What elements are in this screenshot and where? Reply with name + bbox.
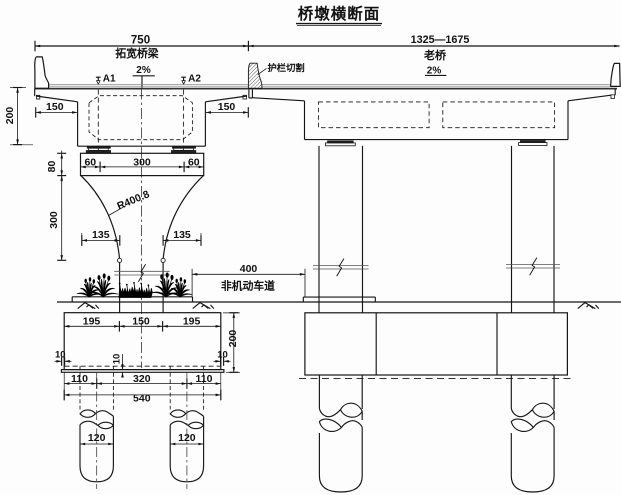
pier cap new bridge [81, 153, 204, 175]
new pier centerline dash-dot [140, 89, 142, 369]
ground line [57, 301, 621, 303]
svg-text:老桥: 老桥 [423, 48, 447, 62]
new girder bottom [78, 145, 206, 147]
svg-text:80: 80 [46, 161, 58, 173]
stem break lines [114, 270, 169, 272]
new girder left wing soffit [36, 96, 78, 102]
old girder left wing soffit [252, 98, 304, 101]
svg-text:150: 150 [132, 316, 150, 328]
svg-text:750: 750 [131, 35, 150, 47]
platform new bridge [72, 296, 192, 298]
old girder void left dashed [319, 102, 430, 128]
old pile at x=532.7 lower edges [510, 433, 512, 476]
pile at x=96.7 rounded bottom [80, 466, 113, 482]
old cushion dashed line [299, 377, 572, 379]
dowel circle left [118, 258, 122, 262]
deck surface line 1 [49, 83, 249, 85]
label R400.8 with leader [109, 206, 126, 216]
plant dense grass middle [119, 287, 152, 297]
dimension 195 150 195 [64, 325, 221, 327]
old pile at x=340.8 break wave 1 [319, 409, 340, 417]
dimension 540 [64, 394, 221, 396]
old column left edges [318, 146, 320, 313]
svg-text:195: 195 [83, 316, 101, 328]
old pile at x=340.8 rounded bottom [319, 476, 362, 492]
new girder right drip square [243, 95, 247, 99]
old bearing right [520, 141, 545, 143]
old bearing left [328, 141, 354, 143]
stem break zigzag [138, 264, 145, 282]
old pile at x=532.7 break wave 2 [511, 419, 533, 431]
svg-text:200: 200 [4, 107, 16, 125]
embedded pile right dashed [169, 366, 171, 409]
old column left break [313, 264, 369, 266]
platform old bridge [303, 296, 375, 298]
pile at x=96.7 break wave 1 [80, 410, 96, 417]
dimension 150 left wing [36, 111, 78, 113]
dimension 110 320 110 [64, 383, 221, 385]
old cap divider left [375, 313, 377, 375]
dimension 135 right [163, 239, 201, 241]
old pile at x=532.7 rounded bottom [511, 476, 554, 492]
section marker A1 [96, 76, 101, 78]
new girder right web [204, 102, 206, 146]
svg-text:10: 10 [55, 349, 66, 360]
old cap divider right [496, 313, 498, 375]
title underline [296, 23, 382, 25]
new girder left drip square [36, 95, 39, 99]
old pile at x=340.8 upper edges [318, 375, 320, 409]
new girder left web [77, 102, 79, 146]
plant reeds right clump [151, 292, 166, 297]
pier stem left edge [119, 260, 121, 313]
dimension 60 300 60 [81, 166, 204, 168]
pile at x=96.7 centerline [96, 373, 98, 489]
svg-text:非机动车道: 非机动车道 [221, 278, 275, 292]
deck cut stub below cut barrier [248, 90, 250, 98]
pile at x=186.9 rounded bottom [170, 466, 203, 482]
svg-text:110: 110 [71, 373, 88, 385]
svg-text:桥墩横断面: 桥墩横断面 [298, 4, 381, 23]
svg-text:A1: A1 [103, 74, 116, 85]
old girder bottom [305, 139, 569, 141]
old girder right web [567, 101, 569, 140]
old pile at x=532.7 upper edges [510, 375, 512, 409]
pier taper curve left R400.8 [81, 176, 120, 260]
dimension 150 right wing [206, 111, 249, 113]
svg-text:195: 195 [183, 316, 201, 328]
dimension 135 left [82, 239, 120, 241]
svg-text:300: 300 [48, 211, 60, 229]
dimension 200 deck height [17, 88, 19, 145]
pile at x=186.9 break wave 1 [170, 410, 186, 417]
pile at x=186.9 break wave 2 [188, 422, 203, 429]
old girder right fascia [614, 89, 616, 96]
pier stem right edge [162, 260, 164, 313]
dimension 80 cap height [61, 151, 63, 182]
new girder left fascia [34, 89, 36, 97]
dimension 200 cap height right [233, 313, 235, 373]
svg-text:A2: A2 [188, 74, 201, 85]
pile at x=96.7 edges [79, 425, 81, 466]
section marker A2 [181, 76, 186, 78]
left bearing new bridge [87, 146, 110, 148]
deck top thick line [35, 88, 617, 90]
cushion layer below cap [61, 370, 224, 373]
old pile at x=340.8 lower edges [318, 433, 320, 476]
svg-text:2%: 2% [136, 65, 151, 76]
svg-text:1325—1675: 1325—1675 [411, 34, 470, 46]
dimension 1325-1675 [248, 45, 619, 47]
soil hatch symbol left [78, 303, 85, 309]
section cut line A2 dashed [183, 90, 185, 154]
pile at x=96.7 break wave 2 [98, 422, 113, 429]
svg-text:110: 110 [196, 373, 213, 385]
pile at x=186.9 centerline [186, 373, 188, 489]
pier taper curve right [163, 176, 203, 260]
old column right break [506, 263, 560, 265]
left barrier F-shape [35, 57, 49, 89]
section cut line A1 dashed [97, 90, 99, 154]
dimension 10 cushion thickness rotated [122, 354, 124, 370]
svg-text:400: 400 [240, 263, 258, 275]
pile at x=186.9 dimension 120 [170, 443, 203, 445]
label 护栏切割 with leader [258, 68, 267, 74]
old column right edges [511, 146, 513, 313]
right barrier (old bridge edge) [611, 63, 621, 86]
svg-text:10: 10 [112, 354, 123, 365]
dimension 400 [192, 273, 305, 275]
foundation cap new bridge [64, 313, 221, 370]
svg-text:60: 60 [84, 156, 96, 168]
svg-text:135: 135 [173, 229, 191, 241]
svg-text:150: 150 [218, 101, 236, 113]
old girder right wing soffit [568, 95, 611, 101]
svg-text:540: 540 [133, 393, 151, 405]
old girder right drip square [611, 95, 614, 99]
old girder void right dashed [443, 102, 555, 128]
extension lines below cap [63, 372, 65, 400]
right bearing new bridge [172, 146, 195, 148]
pile at x=186.9 edges [169, 425, 171, 466]
old pile at x=340.8 break wave 2 [319, 419, 341, 431]
construction joint dashed in cap [65, 365, 221, 367]
svg-text:135: 135 [92, 229, 110, 241]
svg-text:320: 320 [133, 373, 151, 385]
svg-text:150: 150 [46, 101, 64, 113]
new girder inner void dashed octagon [89, 96, 192, 140]
old pile at x=532.7 break wave 1 [511, 409, 532, 417]
soil hatch symbol middle [193, 303, 200, 309]
svg-text:200: 200 [227, 330, 239, 348]
svg-text:拓宽桥梁: 拓宽桥梁 [115, 46, 158, 60]
svg-text:护栏切割: 护栏切割 [268, 62, 305, 73]
plant reeds left clump [77, 293, 89, 297]
dimension 10 right [214, 360, 221, 362]
embedded pile left dashed [79, 366, 81, 409]
dimension 10 left [55, 360, 62, 362]
dowel circle right [161, 258, 165, 262]
soil hatch symbol right (old bridge) [578, 303, 585, 309]
new girder right wing soffit [205, 96, 247, 102]
old girder left web [304, 101, 306, 140]
dimension 300 pier height [61, 176, 63, 261]
pile at x=96.7 dimension 120 [80, 443, 113, 445]
svg-text:60: 60 [188, 156, 200, 168]
svg-text:300: 300 [133, 156, 151, 168]
deck surface line 2 [49, 85, 249, 87]
svg-text:10: 10 [217, 349, 228, 360]
dimension 750 [35, 45, 248, 47]
old foundation cap [305, 313, 568, 375]
